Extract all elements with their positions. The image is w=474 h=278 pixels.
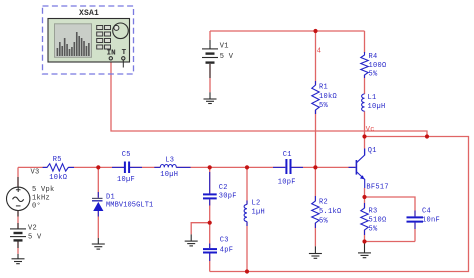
svg-text:XSA1: XSA1	[79, 9, 99, 18]
svg-text:0°: 0°	[32, 202, 41, 211]
svg-text:10pF: 10pF	[278, 179, 296, 187]
svg-text:MMBV105GLT1: MMBV105GLT1	[106, 202, 153, 210]
svg-text:C3: C3	[220, 236, 229, 244]
svg-text:10nF: 10nF	[422, 217, 440, 225]
svg-text:R5: R5	[53, 156, 62, 164]
svg-text:5%: 5%	[319, 217, 329, 225]
svg-text:100Ω: 100Ω	[369, 62, 387, 70]
svg-text:R1: R1	[319, 84, 328, 92]
svg-text:R3: R3	[369, 207, 378, 215]
svg-text:5 V: 5 V	[220, 53, 234, 61]
svg-text:4: 4	[317, 48, 322, 56]
svg-text:510Ω: 510Ω	[369, 217, 387, 225]
svg-text:10kΩ: 10kΩ	[49, 174, 67, 182]
svg-text:10µH: 10µH	[160, 171, 178, 179]
svg-text:4pF: 4pF	[220, 246, 234, 254]
svg-text:5.1kΩ: 5.1kΩ	[319, 208, 342, 216]
svg-text:1kHz: 1kHz	[32, 194, 50, 202]
svg-text:5 Vpk: 5 Vpk	[32, 186, 55, 194]
svg-text:Q1: Q1	[368, 147, 377, 155]
svg-text:R2: R2	[319, 199, 328, 207]
svg-text:1µH: 1µH	[252, 208, 266, 216]
svg-text:5%: 5%	[369, 226, 379, 234]
svg-text:L3: L3	[165, 156, 174, 164]
svg-text:BF517: BF517	[366, 183, 389, 191]
svg-text:C4: C4	[422, 207, 431, 215]
svg-text:30pF: 30pF	[219, 193, 237, 201]
svg-text:10µF: 10µF	[117, 176, 135, 184]
svg-text:10µH: 10µH	[368, 103, 386, 111]
svg-text:C5: C5	[122, 151, 131, 159]
svg-text:V3: V3	[31, 169, 40, 177]
svg-text:5 V: 5 V	[28, 234, 42, 242]
svg-text:R4: R4	[369, 53, 378, 61]
svg-text:V2: V2	[28, 224, 37, 232]
svg-text:5%: 5%	[369, 71, 379, 79]
svg-text:Vc: Vc	[366, 126, 375, 134]
svg-text:V1: V1	[220, 43, 229, 51]
svg-text:T: T	[122, 49, 127, 57]
svg-text:IN: IN	[107, 50, 116, 58]
svg-text:C1: C1	[283, 151, 292, 159]
svg-text:L2: L2	[252, 200, 261, 208]
svg-text:L1: L1	[368, 94, 377, 102]
svg-text:10kΩ: 10kΩ	[319, 93, 337, 101]
svg-text:C2: C2	[219, 184, 228, 192]
svg-text:5%: 5%	[319, 102, 329, 110]
svg-text:D1: D1	[106, 193, 115, 201]
